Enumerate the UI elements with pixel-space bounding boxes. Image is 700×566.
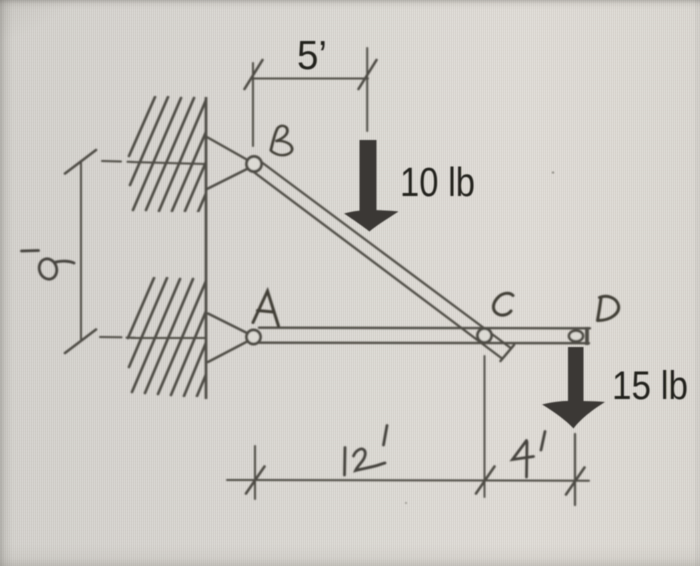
top dim tick left (245, 60, 263, 89)
label D (handwritten) (598, 296, 619, 320)
wall hatching lower patch (128, 278, 241, 396)
photo vignette top-left corner (0, 0, 110, 60)
photo vignette right edge (695, 0, 700, 566)
photo vignette left strip (0, 0, 13, 566)
member end cap at D (585, 327, 589, 345)
top dimension line 5' (253, 78, 368, 80)
svg-text:5’: 5’ (297, 32, 327, 78)
bottom dimension line (227, 479, 589, 482)
dash-dot centerline at A level (100, 337, 205, 338)
left dim tick bottom (65, 330, 96, 354)
label B (handwritten) (271, 126, 292, 155)
label 4' (handwritten) (513, 432, 546, 478)
photo vignette bottom strip (0, 544, 700, 566)
pin circle C (478, 329, 492, 343)
15 lb force arrow (542, 347, 605, 429)
svg-text:10 lb: 10 lb (400, 159, 475, 205)
pin circle A (247, 330, 261, 344)
left dim tick top (65, 150, 96, 174)
extension line below A (254, 446, 256, 499)
extension line below C (484, 356, 486, 497)
extension line from B up to dim (252, 63, 254, 146)
support triangle at A (208, 314, 252, 363)
photo speck (552, 171, 555, 174)
label A (handwritten) (253, 291, 279, 326)
dash-dot centerline at B level (102, 161, 205, 164)
diagonal member BC (double line) (258, 160, 510, 348)
svg-text:15 lb: 15 lb (612, 364, 688, 408)
pin circle B (247, 157, 262, 172)
wall hatching upper patch (129, 97, 242, 212)
bottom dim tick at D (566, 468, 585, 495)
text labels (typed) (297, 32, 688, 408)
label 9' (rotated handwritten) (22, 251, 75, 282)
label 12' (handwritten) (345, 426, 388, 476)
extension line below D (574, 434, 576, 505)
left dimension line 9' (80, 161, 82, 340)
photo vignette top band (0, 0, 700, 9)
support triangle at B (206, 137, 252, 190)
bottom dim tick at C (476, 467, 495, 494)
top dim tick right (359, 60, 377, 89)
10 lb force arrow (344, 140, 399, 232)
label C (handwritten) (493, 293, 513, 315)
bottom dim tick at A (246, 467, 265, 494)
wall line (205, 97, 208, 399)
photo speck (405, 502, 407, 504)
horizontal member AD (double line) (259, 327, 590, 330)
pin circle D (569, 331, 583, 342)
diagonal member end cap (501, 345, 515, 361)
extension line above 10lb arrow (366, 48, 368, 131)
